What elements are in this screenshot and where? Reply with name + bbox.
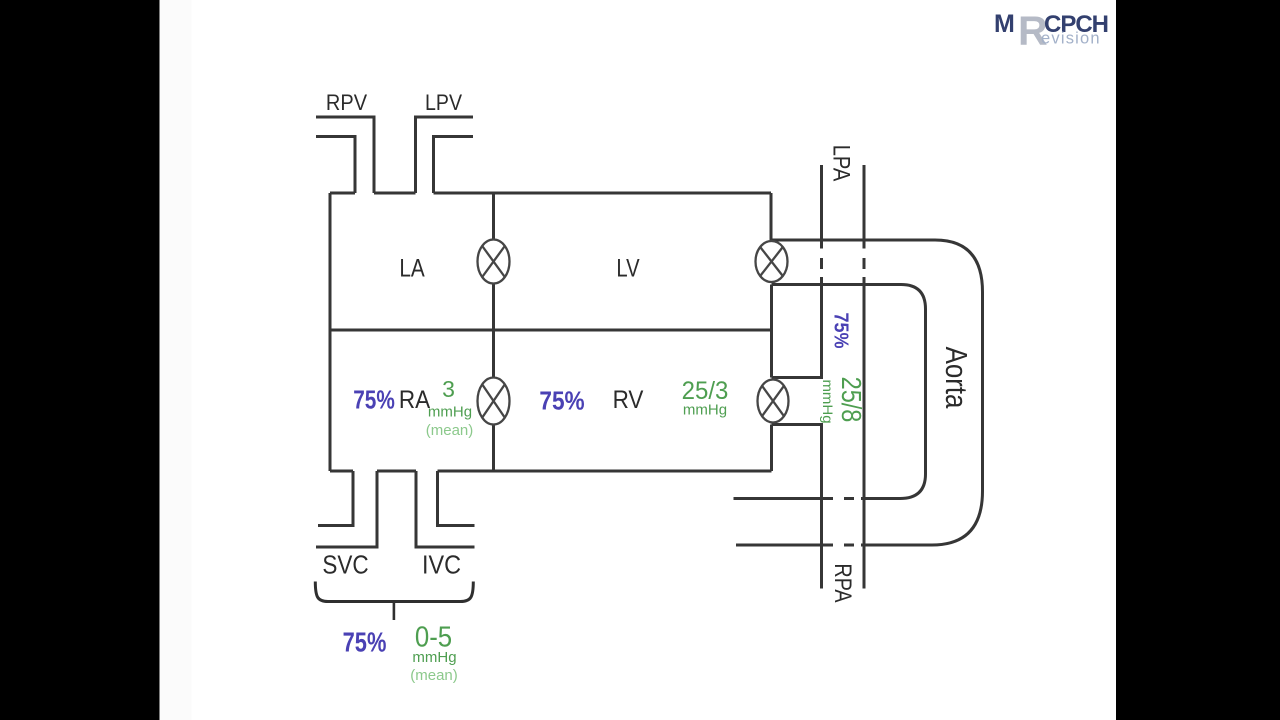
- svg-text:(mean): (mean): [426, 422, 474, 439]
- svg-text:RA: RA: [399, 386, 430, 414]
- svg-text:M: M: [994, 10, 1015, 38]
- svg-text:RPV: RPV: [326, 91, 367, 115]
- svg-text:(mean): (mean): [410, 667, 458, 684]
- svg-text:RPA: RPA: [829, 563, 856, 602]
- svg-text:mmHg: mmHg: [819, 379, 834, 423]
- svg-text:evision: evision: [1041, 30, 1101, 48]
- svg-text:25/8: 25/8: [835, 377, 865, 423]
- svg-text:0-5: 0-5: [415, 620, 452, 653]
- svg-text:mmHg: mmHg: [683, 402, 727, 419]
- svg-text:LA: LA: [399, 254, 425, 282]
- svg-text:75%: 75%: [353, 385, 395, 414]
- svg-text:3: 3: [442, 376, 455, 402]
- svg-text:mmHg: mmHg: [428, 404, 472, 421]
- svg-text:Aorta: Aorta: [939, 347, 974, 409]
- svg-text:LV: LV: [616, 253, 640, 282]
- svg-text:LPA: LPA: [828, 145, 855, 182]
- svg-text:SVC: SVC: [322, 551, 368, 580]
- svg-text:RV: RV: [613, 386, 644, 414]
- svg-text:75%: 75%: [343, 627, 387, 658]
- svg-text:75%: 75%: [539, 387, 585, 416]
- svg-text:mmHg: mmHg: [412, 649, 456, 666]
- svg-text:IVC: IVC: [422, 551, 461, 579]
- svg-text:75%: 75%: [829, 312, 851, 348]
- svg-text:LPV: LPV: [425, 91, 462, 115]
